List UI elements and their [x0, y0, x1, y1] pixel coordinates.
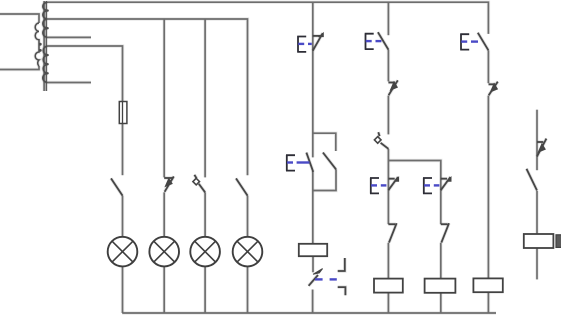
contact K3aux arm: [441, 223, 449, 242]
wire top rail L1+: [48, 2, 489, 34]
pushbutton E1 NC arm: [313, 33, 323, 51]
wire coil K1 to aux contact: [311, 256, 314, 272]
bottom bus N: [122, 311, 496, 314]
label E letter (E3): [365, 34, 374, 50]
wire column R2 top: [387, 2, 390, 35]
label E5 blue mid-bar: [424, 184, 430, 186]
secondary winding dot a: [46, 9, 48, 11]
fuse F1 wire through: [122, 102, 124, 124]
wire R2 seg3: [387, 96, 390, 135]
wire S3 to lamp H3: [203, 192, 206, 237]
switch S1 contact arm: [111, 178, 123, 195]
aux contact arm below K1: [309, 275, 318, 286]
wire coil K4 to bus: [487, 292, 490, 313]
contact B5 arm: [537, 139, 546, 157]
relay coil K3: [425, 279, 456, 293]
relay coil K2: [374, 279, 403, 293]
clipped element at right edge: [556, 235, 561, 248]
transformer core: [44, 1, 46, 91]
aux contact flag below K1: [313, 269, 323, 275]
mechanical link dash 1 below K1: [315, 278, 323, 280]
contact B5 arrow: [538, 144, 545, 152]
label E2 blue dash: [297, 161, 310, 163]
switch S2 contact arm: [165, 176, 174, 191]
selector E2 left arm: [306, 153, 313, 172]
label E letter (E5): [423, 178, 432, 194]
wire coil K3 to bus: [439, 293, 442, 313]
wire column 3 from rail: [203, 19, 206, 177]
contact K3aux tick: [441, 222, 448, 225]
wire rail 2: [48, 19, 248, 175]
pushbutton E5 NC tick: [441, 177, 447, 180]
pushbutton E4 NC arm: [388, 177, 398, 190]
switch S4 contact arm: [236, 178, 248, 195]
wire coil K5 lower open end: [535, 248, 538, 279]
label E4 blue mid-bar: [371, 184, 377, 186]
lamp H2: [149, 237, 179, 267]
transformer polarity dot 1: [39, 43, 42, 46]
label E2 blue mid-bar: [287, 161, 293, 163]
secondary winding dot b: [46, 27, 48, 29]
label E letter (E6): [460, 34, 469, 50]
wire column R5 upper: [535, 110, 538, 171]
contact B4 arm: [489, 82, 498, 96]
wire R4 below E- button: [487, 50, 490, 83]
pushbutton E5 arm flag: [447, 177, 451, 181]
wire lamp H2 to bus: [162, 266, 165, 313]
switch S2 NC tick: [164, 176, 173, 179]
label E letter (E4): [370, 178, 379, 194]
pushbutton E6 contact arm: [478, 33, 489, 51]
wire S1 to lamp H1: [121, 196, 124, 238]
wire stub tap C: [48, 81, 91, 84]
pushbutton E1 NC tick: [313, 34, 321, 37]
wire tap B to fuse column: [48, 46, 123, 102]
sensor B3 stem: [378, 132, 379, 136]
transformer polarity dot 2: [39, 49, 42, 52]
wire R4 long to coil K4: [487, 96, 490, 279]
contact B2 arm: [389, 80, 398, 95]
wire primary top lead: [0, 14, 39, 23]
contact B5 tick: [537, 140, 543, 143]
wire R2 to coil K2: [387, 243, 390, 279]
secondary winding dot d: [46, 63, 48, 65]
pushbutton E3 contact arm: [378, 32, 389, 49]
pushbutton E4 NC tick: [388, 177, 394, 180]
label E letter (E1): [297, 36, 306, 52]
label E3 blue mid-bar: [366, 40, 372, 42]
label E letter (E2): [286, 155, 295, 171]
wire R2 seg4 with branch junction: [387, 149, 390, 224]
wire R5 mid to coil K5: [535, 191, 538, 234]
contact B2 tick: [388, 81, 395, 84]
switch S3 contact arm: [199, 184, 205, 193]
wire R2 seg2: [387, 50, 390, 82]
wire R1 right branch lower: [313, 169, 336, 190]
label E3 blue dash: [376, 40, 382, 42]
contact K2aux tick: [388, 222, 395, 225]
label E6 blue dash: [471, 40, 478, 42]
wire primary bottom lead: [0, 66, 39, 70]
wire R3 seg1 continuous: [439, 178, 442, 225]
wire fuse to switch S1: [121, 124, 124, 176]
lamp H3: [190, 237, 220, 267]
wire stub tap A: [48, 36, 91, 39]
fuse F1: [119, 102, 127, 124]
label E5 blue dash: [434, 184, 440, 186]
contact B4 arrow: [491, 84, 498, 92]
pushbutton E4 arm flag: [395, 177, 399, 181]
transformer secondary winding 1: [43, 2, 48, 37]
contact B2 arrow: [391, 82, 398, 90]
wire R1 hook to right stub: [313, 133, 336, 151]
wire column 2 from rail: [162, 19, 165, 177]
lamp H1: [108, 237, 138, 267]
relay coil K1: [299, 244, 327, 256]
contact K2aux arm: [389, 223, 397, 242]
relay coil K5: [524, 234, 554, 248]
wire R1 below selector contact: [311, 171, 314, 244]
contact K5aux arm: [527, 169, 538, 191]
switch S3 actuator stem: [194, 175, 196, 179]
wire lamp H4 to bus: [246, 266, 249, 313]
secondary winding dot c: [46, 54, 48, 56]
wire R1 aux contact to bus: [311, 290, 314, 314]
relay coil K4: [473, 278, 502, 292]
label E1 blue dash: [308, 43, 312, 45]
wire column R1 top continuous: [311, 2, 314, 157]
switch S2 arrow: [165, 178, 172, 186]
sensor B3 arm: [381, 143, 389, 149]
sensor B3 diamond flag: [374, 137, 381, 144]
secondary winding dot e: [46, 72, 48, 74]
switch S3 diamond flag: [193, 178, 200, 185]
mech link element right upper hook: [338, 258, 345, 271]
wire lamp H1 to bus: [121, 266, 124, 313]
label E4 blue dash: [381, 184, 387, 186]
contact B4 tick: [489, 83, 496, 86]
wire branch to column R3: [388, 161, 440, 178]
wire S4 to lamp H4: [246, 196, 249, 238]
wire R3 to coil K3: [439, 243, 442, 279]
pushbutton E1 arm flag: [319, 33, 323, 37]
mech link element right lower hook: [338, 287, 346, 295]
wire lamp H3 to bus: [203, 266, 206, 313]
mechanical link dash 2 below K1: [330, 278, 337, 280]
wire S2 to lamp H2: [162, 192, 165, 237]
pushbutton E5 NC arm: [441, 177, 451, 190]
transformer T1 primary winding: [35, 23, 39, 66]
selector E2 right arm: [323, 153, 336, 170]
label E1 blue mid-bar: [298, 43, 304, 45]
transformer secondary winding 2: [43, 46, 48, 83]
lamp H4: [233, 237, 263, 267]
label E6 blue mid-bar: [461, 40, 467, 42]
wire coil K2 to bus: [387, 293, 390, 313]
